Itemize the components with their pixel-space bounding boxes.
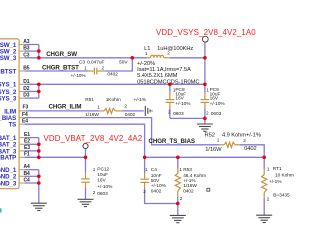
- resistor R51: [99, 108, 122, 113]
- pin stub BAT_3 E3: [19, 150, 25, 152]
- grounds: [0, 106, 272, 223]
- capacitor PC12: [81, 172, 90, 189]
- svg-text:50V: 50V: [119, 60, 128, 66]
- svg-text:B5: B5: [23, 65, 30, 71]
- svg-text:CHGR_ILIM: CHGR_ILIM: [49, 103, 82, 110]
- resistor R52: [219, 142, 240, 147]
- pin stub SW_1 A3: [19, 44, 25, 46]
- node SYS D2: [37, 90, 41, 94]
- svg-text:+/-10%: +/-10%: [175, 101, 191, 107]
- PC9 labels: [206, 87, 225, 117]
- ground under PC12: [78, 199, 94, 206]
- wire GND_2 B4: [25, 175, 39, 177]
- pin stub BAT_2 E2: [19, 143, 25, 145]
- svg-text:2: 2: [243, 138, 246, 143]
- ground rotated at ILIM R51: [145, 106, 152, 116]
- svg-text:0402: 0402: [244, 146, 257, 152]
- wire SW join vertical: [38, 45, 40, 58]
- wire R52 to TS node: [240, 145, 264, 158]
- svg-text:BATP: BATP: [0, 155, 16, 162]
- svg-text:BTST: BTST: [0, 68, 16, 75]
- wire PC9 bottom lead: [204, 109, 206, 119]
- node VBAT flag: [84, 156, 88, 160]
- wire R53 top lead: [177, 157, 179, 168]
- svg-text:2: 2: [102, 65, 105, 70]
- capacitor PC9: [201, 92, 210, 109]
- capacitor C4: [140, 173, 149, 189]
- RT1 labels: [267, 166, 294, 201]
- svg-text:C3: C3: [23, 52, 30, 58]
- ground under RT1: [256, 215, 272, 222]
- resistor R53: [175, 168, 180, 196]
- svg-text:5.4X5.2X1.6MM: 5.4X5.2X1.6MM: [137, 73, 178, 79]
- svg-text:1/16W: 1/16W: [85, 112, 99, 118]
- svg-text:2: 2: [206, 110, 209, 115]
- svg-text:VDD_VSYS_2V8_4V2_1A0: VDD_VSYS_2V8_4V2_1A0: [156, 28, 256, 37]
- svg-text:CHGR_TS_BIAS: CHGR_TS_BIAS: [149, 138, 195, 145]
- node caps gnd: [203, 117, 207, 121]
- thermistor RT1: [262, 169, 267, 198]
- wire BTST riser: [105, 58, 133, 71]
- svg-text:SW_3: SW_3: [0, 55, 17, 62]
- svg-text:Isat=11.1A,Irms=7.5A: Isat=11.1A,Irms=7.5A: [137, 67, 191, 73]
- svg-text:PC12: PC12: [97, 166, 109, 172]
- node L1 VSYS: [203, 56, 207, 60]
- off-sheet teal fragment: [0, 208, 1, 212]
- pin stub TS E4: [19, 123, 25, 125]
- svg-text:46.4 Kohm: 46.4 Kohm: [183, 173, 206, 179]
- pin stub GND_2 B4: [19, 175, 25, 177]
- L1 labels: [137, 46, 199, 86]
- svg-text:1/16W: 1/16W: [205, 147, 222, 153]
- node GND B4: [37, 175, 41, 179]
- wire C4 bottom lead: [145, 189, 178, 204]
- svg-text:2: 2: [180, 196, 183, 201]
- svg-text:1: 1: [179, 167, 182, 172]
- wire PC12 bottom lead: [85, 188, 87, 199]
- svg-text:R51: R51: [85, 97, 94, 103]
- svg-text:+/-10%: +/-10%: [71, 73, 87, 79]
- svg-text:A4: A4: [24, 164, 31, 170]
- wire GND_3 C4: [25, 182, 39, 184]
- svg-text:1: 1: [267, 167, 270, 172]
- wire R53 bottom lead: [177, 196, 179, 215]
- svg-text:+/-1%: +/-1%: [183, 178, 196, 184]
- wire SW_1 A3: [25, 44, 39, 46]
- wire BTST from pin: [25, 70, 88, 72]
- node SYS VSYS: [203, 83, 207, 87]
- C3 labels: [71, 60, 129, 79]
- node SW C3: [37, 56, 41, 60]
- ground under R53: [170, 215, 186, 222]
- svg-text:1: 1: [145, 167, 148, 172]
- marker square: [207, 188, 210, 191]
- svg-text:TS: TS: [8, 122, 16, 129]
- PC12 labels: [93, 166, 113, 197]
- node TS RT1: [262, 156, 266, 160]
- svg-text:R52: R52: [205, 132, 215, 138]
- svg-text:2: 2: [267, 196, 270, 201]
- svg-text:RT1: RT1: [273, 166, 282, 172]
- svg-text:0402: 0402: [183, 189, 194, 195]
- svg-text:0603: 0603: [97, 191, 108, 197]
- svg-text:B4: B4: [24, 171, 31, 177]
- svg-text:F3: F3: [23, 105, 29, 111]
- pin stub GND_1 A4: [19, 169, 25, 171]
- svg-text:10 Kohm: 10 Kohm: [275, 172, 294, 178]
- C4 labels: [143, 167, 166, 195]
- svg-text:4.9 Kohm+/-1%: 4.9 Kohm+/-1%: [222, 132, 261, 138]
- wire BAT join vertical: [38, 138, 40, 158]
- wire BAT_2 E2: [25, 143, 39, 145]
- wire SYS_3 D3: [25, 97, 39, 99]
- svg-text:D1: D1: [23, 79, 30, 85]
- svg-text:16V: 16V: [97, 178, 106, 184]
- svg-text:C4: C4: [24, 178, 31, 184]
- wire BAT_1 E1: [25, 137, 39, 139]
- pin stub TS_BIAS F4: [19, 117, 25, 119]
- pin stub BATP F1: [19, 156, 25, 158]
- wire PC12 top lead: [85, 157, 87, 172]
- svg-text:2: 2: [93, 190, 96, 195]
- wire RT1 top lead: [263, 157, 265, 169]
- wire TS_BIAS from pin: [25, 118, 220, 145]
- pin stub SYS_3 D3: [19, 97, 25, 99]
- wire caps gnd stub: [204, 118, 206, 124]
- node TS C4: [143, 156, 147, 160]
- svg-text:+/-1%: +/-1%: [134, 97, 147, 103]
- svg-text:0402: 0402: [107, 72, 118, 78]
- capacitor PC8: [166, 92, 175, 109]
- svg-text:2: 2: [124, 104, 127, 109]
- svg-text:10nF: 10nF: [151, 173, 162, 179]
- svg-text:16V: 16V: [210, 96, 219, 102]
- node SYS D1: [37, 83, 41, 87]
- svg-text:2: 2: [168, 110, 171, 115]
- svg-text:16V: 16V: [175, 96, 184, 102]
- net flag circle VDD_VBAT: [83, 143, 88, 148]
- IC U1 block outline: [0, 39, 25, 189]
- svg-text:VDD_VBAT_2V8_4V2_4A2: VDD_VBAT_2V8_4V2_4A2: [44, 134, 143, 143]
- svg-text:1/16W: 1/16W: [183, 183, 197, 189]
- pin stub BTST B5: [19, 70, 25, 72]
- pin stub BAT_1 E1: [19, 137, 25, 139]
- wire net CHGR_SW: [25, 57, 147, 59]
- svg-text:+/-10%: +/-10%: [97, 184, 113, 190]
- wire caps bottom row: [170, 117, 205, 119]
- svg-text:+/-10%: +/-10%: [210, 101, 226, 107]
- wire PC8 top lead: [169, 84, 171, 92]
- svg-text:1uH@100KHz: 1uH@100KHz: [157, 46, 193, 52]
- svg-text:B=3435: B=3435: [273, 192, 290, 198]
- wire GND join vertical: [38, 170, 40, 203]
- svg-text:1: 1: [84, 65, 87, 70]
- svg-text:1Kohm: 1Kohm: [106, 97, 121, 103]
- svg-text:50V: 50V: [151, 178, 160, 184]
- svg-text:D3: D3: [23, 93, 30, 99]
- svg-text:0518CDMCCDS-1R0MC: 0518CDMCCDS-1R0MC: [137, 79, 199, 85]
- svg-text:1: 1: [217, 138, 220, 143]
- svg-text:D2: D2: [23, 86, 30, 92]
- svg-text:SYS_1: SYS_1: [0, 82, 17, 89]
- R53 labels: [179, 167, 206, 201]
- net flag circle VDD_VSYS: [202, 36, 208, 42]
- wire GND_1 A4: [25, 169, 39, 171]
- pin stub ILIM F3: [19, 110, 25, 112]
- svg-text:2: 2: [167, 50, 170, 55]
- svg-text:1: 1: [97, 104, 100, 109]
- svg-text:CHGR_BTST: CHGR_BTST: [42, 64, 79, 71]
- svg-text:0603: 0603: [211, 111, 222, 117]
- node SW B3: [37, 49, 41, 53]
- node C4 R53 gnd: [176, 202, 180, 206]
- node BAT E2: [37, 143, 41, 147]
- wire ILIM to R51: [25, 110, 100, 112]
- svg-text:A3: A3: [23, 39, 30, 45]
- svg-text:E4: E4: [22, 119, 28, 125]
- ground under PC9: [197, 124, 213, 131]
- svg-text:E3: E3: [24, 145, 30, 151]
- svg-text:1: 1: [93, 167, 96, 172]
- svg-text:0603: 0603: [173, 111, 184, 117]
- svg-text:0402: 0402: [125, 112, 136, 118]
- pin stub SW_2 B3: [19, 50, 25, 52]
- node SW BTST riser: [131, 56, 135, 60]
- svg-text:CHGR_SW: CHGR_SW: [46, 51, 77, 58]
- wire TS node row: [145, 156, 265, 158]
- pin stub GND_3 C4: [19, 182, 25, 184]
- wire VBAT flag stem: [85, 149, 87, 158]
- svg-text:E2: E2: [24, 139, 30, 145]
- wire RT1 bottom lead: [263, 198, 265, 215]
- wire net VBAT row: [25, 156, 86, 158]
- svg-text:2: 2: [143, 189, 146, 194]
- inductor L1: [147, 55, 170, 58]
- wire R51 to ground: [122, 110, 144, 112]
- svg-text:0402: 0402: [151, 189, 162, 195]
- node BAT E3: [37, 149, 41, 153]
- node TS R53: [176, 156, 180, 160]
- ground under GND pins: [31, 203, 47, 210]
- wire TS from pin E4: [25, 124, 145, 157]
- svg-text:GND_3: GND_3: [0, 180, 17, 187]
- svg-text:1: 1: [145, 51, 148, 56]
- wire L1 right to VSYS: [170, 57, 205, 59]
- pin stub SW_3 C3: [19, 57, 25, 59]
- svg-text:B3: B3: [23, 46, 30, 52]
- wire PC8 bottom lead: [169, 109, 171, 119]
- svg-text:+/-1%: +/-1%: [269, 179, 282, 185]
- R52 labels: [205, 132, 261, 153]
- capacitor C3: [88, 68, 105, 75]
- wire C4 top lead: [144, 157, 146, 173]
- wire BAT_3 E3: [25, 150, 39, 152]
- wire net SYS D1: [25, 83, 205, 85]
- PC8 labels: [168, 87, 191, 117]
- node SYS PC8: [168, 83, 172, 87]
- svg-text:F4: F4: [22, 112, 28, 118]
- wire VSYS flag stem: [204, 42, 206, 84]
- wire SYS_2 D2: [25, 90, 39, 92]
- R51 labels: [85, 97, 146, 118]
- svg-text:F1: F1: [24, 152, 30, 158]
- node BAT F1: [37, 156, 41, 160]
- svg-text:SYS_3: SYS_3: [0, 96, 17, 103]
- wire SYS join vertical: [38, 84, 40, 98]
- svg-text:C4: C4: [151, 167, 157, 173]
- svg-text:10uF: 10uF: [97, 172, 108, 178]
- svg-text:R53: R53: [183, 167, 192, 173]
- node GND C4: [37, 181, 41, 185]
- wire SW_2 B3: [25, 50, 39, 52]
- pin stub SYS_1 D1: [19, 83, 25, 85]
- wire PC9 top lead: [204, 84, 206, 92]
- pin stub SYS_2 D2: [19, 90, 25, 92]
- svg-text:E1: E1: [24, 132, 30, 138]
- svg-text:+/-10%: +/-10%: [151, 183, 167, 189]
- svg-text:+/-20%: +/-20%: [137, 61, 155, 67]
